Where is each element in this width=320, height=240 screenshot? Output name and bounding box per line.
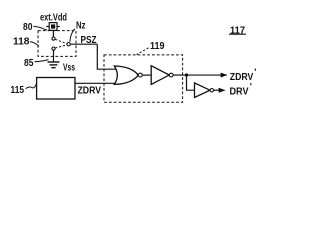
svg-text:DRV: DRV: [230, 85, 249, 97]
leader 118: [30, 42, 39, 47]
junction dot: [185, 73, 188, 76]
NOR gate U1 output bubble: [138, 73, 142, 77]
svg-text:ext.Vdd: ext.Vdd: [40, 12, 67, 24]
wire ZDRV from block 115 to NOR input: [75, 82, 119, 84]
svg-text:115: 115: [11, 84, 25, 96]
svg-text:Nz: Nz: [76, 20, 86, 32]
leader 85: [35, 60, 49, 62]
arrowhead ZDRV': [221, 73, 228, 78]
switch top contact circle: [52, 37, 55, 40]
inverter U3: [195, 83, 211, 98]
switch wiper dashed (to Vss): [55, 45, 67, 48]
svg-text:80: 80: [23, 21, 33, 33]
leader Nz: [70, 29, 75, 42]
svg-text:PSZ: PSZ: [81, 34, 97, 46]
dashed box 119: [104, 55, 183, 102]
wire inverter U3 to DRV' arrow: [214, 89, 220, 91]
svg-text:ZDRV: ZDRV: [78, 85, 102, 97]
leader 119 dashed: [137, 48, 149, 55]
svg-text:': ': [254, 67, 256, 77]
ground Vss symbol: [48, 62, 60, 68]
wire pad to switch top contact: [52, 30, 54, 37]
dashed box 118: [38, 31, 76, 57]
wire node Nz to PSZ corner: [70, 43, 97, 45]
switch common pole circle (node Nz): [67, 43, 70, 46]
inverter U2 output bubble: [169, 73, 173, 77]
wire PSZ vertical drop: [97, 44, 117, 69]
wire junction down to inverter U3: [187, 75, 195, 90]
wire junction to ZDRV' arrow: [187, 74, 222, 76]
leader 115: [26, 84, 37, 89]
block 115 (driver): [37, 78, 75, 100]
inverter U2: [151, 66, 169, 85]
pad 80 (ext.Vdd bonding pad): [46, 23, 60, 31]
wire switch bottom contact to ground: [53, 50, 55, 62]
switch wiper dashed (to ext.Vdd): [55, 39, 67, 43]
svg-text:Vss: Vss: [63, 61, 75, 73]
wire NOR output to inverter U2: [142, 74, 151, 76]
svg-text:119: 119: [150, 40, 165, 52]
arrowhead DRV': [219, 88, 226, 93]
NOR gate U1: [114, 66, 138, 84]
svg-text:': ': [250, 82, 252, 92]
inverter U3 output bubble: [210, 89, 213, 92]
leader 80: [34, 26, 48, 30]
svg-text:85: 85: [24, 57, 34, 69]
wire inverter U2 to junction: [173, 74, 186, 76]
switch bottom contact circle: [52, 47, 55, 50]
svg-text:118: 118: [13, 35, 30, 47]
